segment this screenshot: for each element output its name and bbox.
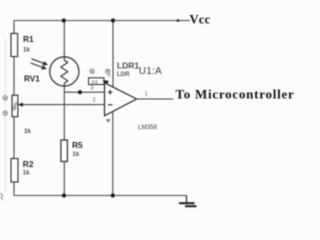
potentiometer up button — [3, 96, 7, 100]
wire: left vertical rail — [13, 21, 15, 196]
pin 4 arrow mark — [106, 119, 111, 123]
svg-text:LM358: LM358 — [138, 124, 157, 131]
LDR1 up button — [90, 69, 94, 73]
svg-text:R5: R5 — [72, 140, 83, 150]
wire: non-inverting input (pin 3) — [64, 91, 104, 93]
junction top rail / V+ drop — [111, 18, 115, 22]
wire: top Vcc rail — [14, 20, 190, 22]
resistor R1 — [11, 34, 18, 57]
junction pin3 wire / LDR tap — [78, 90, 82, 94]
svg-text:0.6: 0.6 — [92, 79, 99, 84]
wire: LDR / R5 column — [63, 21, 65, 196]
svg-text:U1:A: U1:A — [139, 66, 162, 77]
node: Vcc terminal dot — [177, 19, 180, 22]
potentiometer wiper arrowhead — [18, 103, 23, 107]
junction bottom rail / V- drop — [111, 193, 115, 197]
wire: op-amp V+ supply drop — [112, 21, 114, 88]
wire: op-amp output — [137, 98, 174, 100]
svg-text:R1: R1 — [23, 34, 34, 44]
svg-text:LDR: LDR — [117, 71, 130, 78]
svg-text:8: 8 — [108, 73, 111, 79]
svg-text:1: 1 — [145, 92, 148, 98]
svg-text:R2: R2 — [23, 159, 34, 169]
svg-text:3: 3 — [91, 86, 94, 92]
junction top rail / LDR column — [62, 18, 66, 22]
op-amp U1:A — [105, 83, 137, 116]
LDR1 wiper arrowhead pointing into box — [103, 80, 109, 85]
svg-text:1k: 1k — [23, 169, 30, 176]
LDR1 control box — [89, 78, 105, 85]
LDR1 down button — [106, 69, 110, 73]
svg-text:1k: 1k — [24, 128, 31, 135]
svg-text:Vcc: Vcc — [190, 13, 211, 27]
bottom-left edge smudge — [0, 193, 3, 200]
faint left edge artifact — [5, 38, 7, 192]
wire: op-amp V- supply drop — [112, 111, 114, 195]
junction bottom rail / R5 column — [62, 193, 66, 197]
op-amp plus sign — [108, 90, 113, 95]
resistor R5 — [61, 140, 68, 162]
svg-text:RV1: RV1 — [24, 74, 40, 83]
photoresistor RV1 body (circle with zigzag) — [50, 57, 79, 86]
photoresistor RV1 light arrows — [31, 59, 47, 69]
svg-text:LDR1: LDR1 — [117, 60, 139, 70]
potentiometer down button — [3, 111, 7, 115]
resistor R2 — [11, 159, 18, 183]
potentiometer body (left, vertical) — [12, 95, 18, 117]
op-amp minus sign — [108, 104, 113, 106]
wire: inverting input (pin 2) from pot wiper — [18, 104, 105, 106]
svg-text:2: 2 — [93, 97, 96, 103]
ground — [186, 196, 188, 204]
svg-text:1k: 1k — [72, 151, 79, 158]
svg-text:1k: 1k — [23, 46, 30, 53]
wire: bottom ground rail — [14, 195, 187, 197]
svg-text:To Microcontroller: To Microcontroller — [176, 87, 295, 102]
